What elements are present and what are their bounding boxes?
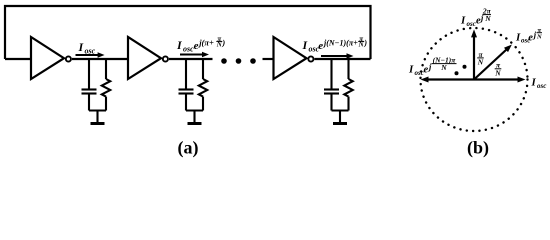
svg-text:N: N: [484, 14, 491, 23]
svg-text:I: I: [408, 64, 414, 76]
svg-text:e: e: [318, 40, 323, 52]
svg-text:I: I: [302, 38, 309, 52]
svg-text:I: I: [460, 15, 466, 27]
svg-text:osc: osc: [537, 82, 546, 90]
svg-text:I: I: [176, 38, 183, 52]
svg-text:j(π+: j(π+: [197, 38, 214, 48]
svg-text:e: e: [424, 65, 429, 76]
svg-text:osc: osc: [415, 69, 424, 77]
svg-text:N: N: [477, 57, 484, 66]
svg-text:osc: osc: [183, 44, 194, 53]
svg-text:e: e: [528, 32, 533, 43]
svg-text:(b): (b): [467, 138, 489, 159]
svg-text:osc: osc: [467, 20, 476, 28]
svg-text:(a): (a): [178, 138, 199, 159]
svg-text:osc: osc: [85, 46, 96, 55]
svg-text:N: N: [494, 68, 501, 77]
svg-text:I: I: [531, 77, 537, 89]
svg-text:e: e: [194, 40, 199, 52]
svg-text:): ): [221, 38, 225, 48]
svg-text:N: N: [536, 33, 542, 40]
svg-text:I: I: [78, 40, 85, 54]
svg-text:): ): [363, 39, 367, 48]
svg-text:N: N: [440, 63, 447, 72]
svg-text:j(N−1)(π+: j(N−1)(π+: [322, 39, 358, 48]
